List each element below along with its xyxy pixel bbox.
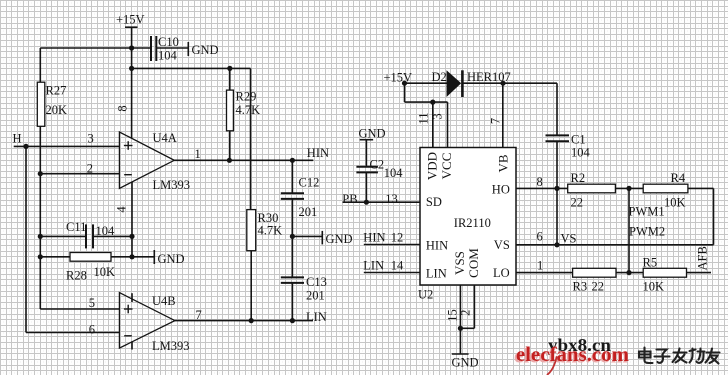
svg-text:PWM2: PWM2 (629, 225, 665, 239)
wire R28 row left stub (40, 256, 70, 258)
svg-text:13: 13 (385, 192, 398, 206)
svg-text:4.7K: 4.7K (236, 103, 261, 117)
wire U4B pin6 row (26, 332, 119, 334)
svg-text:VCC: VCC (439, 153, 454, 180)
resistor R3 (573, 268, 616, 277)
junction C11 right pin4 (129, 234, 134, 239)
svg-text:201: 201 (306, 289, 325, 303)
wire C2 top stub (365, 140, 367, 167)
ground tick at C10 (187, 42, 189, 56)
svg-text:IR2110: IR2110 (454, 216, 491, 230)
svg-text:R3: R3 (573, 279, 588, 293)
resistor R30 (247, 210, 256, 251)
junction C11 left (38, 234, 43, 239)
svg-text:3: 3 (88, 132, 94, 146)
svg-text:VS: VS (494, 238, 510, 252)
svg-text:AFB: AFB (696, 246, 710, 270)
op-amp U4B body (119, 293, 174, 349)
resistor R2 (568, 184, 616, 193)
svg-text:LIN: LIN (426, 267, 447, 281)
wire R2 to R4 (615, 187, 643, 189)
svg-text:2: 2 (459, 310, 473, 316)
wire C12 GND stub (292, 235, 322, 237)
junction C12 GND branch (290, 234, 295, 239)
diode D2 body (447, 70, 462, 97)
svg-text:10K: 10K (643, 279, 665, 293)
svg-text:R27: R27 (46, 84, 67, 98)
junction +15V D2 branch (402, 81, 407, 86)
wire R3 to R5 (616, 272, 643, 274)
svg-text:104: 104 (96, 224, 116, 238)
wire VSS pin15 column (459, 285, 461, 354)
svg-text:R4: R4 (671, 171, 686, 185)
svg-text:R2: R2 (571, 171, 586, 185)
wire U4B pin5 row (40, 308, 119, 310)
svg-text:+15V: +15V (116, 13, 145, 27)
wire C13 bottom stub (291, 283, 293, 321)
wire R30 bottom stub (250, 251, 252, 321)
op-amp U4A body (119, 132, 174, 188)
junction +15V/supply row (129, 66, 134, 71)
svg-text:10K: 10K (94, 265, 116, 279)
pin stub U4B bottom (pin 4) (131, 341, 133, 349)
power +15V bar (left rail) (125, 26, 138, 28)
diode D2 cathode bar (461, 70, 464, 97)
wire +15V branch down (404, 83, 406, 102)
ground bar above C2 (360, 139, 373, 141)
svg-text:1: 1 (537, 258, 543, 272)
logo hanzi shao (690, 349, 705, 363)
svg-text:PWM1: PWM1 (629, 205, 665, 219)
resistor R5 (643, 268, 686, 277)
junction R27/pin2 row (38, 171, 43, 176)
junction C2/SD row (364, 200, 369, 205)
svg-text:LO: LO (493, 266, 510, 280)
svg-text:R5: R5 (643, 256, 658, 270)
svg-text:HIN: HIN (307, 146, 329, 160)
wire D2 cathode row to C1 corner (463, 82, 557, 84)
wire node H row to U4A pin3 (14, 145, 120, 147)
wire C12 top stub (291, 160, 293, 193)
pin stub U4B top (pin 8) (131, 293, 133, 302)
capacitor C10 plates (151, 36, 156, 61)
wire C2 bottom stub (365, 172, 367, 202)
logo f tail flourish (548, 357, 557, 375)
svg-text:22: 22 (571, 196, 584, 210)
junction R2/R4 PWM1 (626, 186, 631, 191)
wire COM pin2 column (473, 285, 475, 328)
op-amp U4B minus input mark (124, 335, 132, 337)
svg-text:+15V: +15V (384, 71, 413, 85)
svg-text:22: 22 (592, 279, 605, 293)
wire LO row to R3 (516, 272, 573, 274)
svg-text:GND: GND (326, 232, 353, 246)
logo hanzi fa (673, 349, 687, 363)
capacitor C1 plates (546, 135, 570, 141)
junction +15V/C10 row (129, 45, 134, 50)
resistor R28 (70, 253, 111, 262)
svg-text:VSS: VSS (452, 251, 467, 275)
svg-text:GND: GND (452, 355, 479, 369)
svg-text:HIN: HIN (363, 230, 385, 244)
wire U4B output row to LIN (175, 320, 313, 322)
wire R29 top stub (229, 68, 231, 90)
wire C12 to C13 column (291, 199, 293, 278)
wire VDD/VCC feed row (405, 101, 448, 103)
wire supply row y68 (132, 67, 251, 69)
junction C13/LIN (290, 318, 295, 323)
svg-text:HIN: HIN (426, 239, 448, 253)
svg-text:6: 6 (89, 323, 95, 337)
svg-text:5: 5 (89, 296, 95, 310)
wire right corner down to VS row (713, 188, 715, 244)
wire HO row to R2 (516, 187, 568, 189)
junction R3/R5 PWM2 (626, 270, 631, 275)
svg-text:3: 3 (430, 113, 444, 119)
svg-text:104: 104 (384, 166, 404, 180)
wire C1 top stub (556, 83, 558, 135)
wire +15V to D2 anode (405, 82, 447, 84)
svg-text:14: 14 (391, 258, 404, 272)
wire H column down (25, 146, 27, 332)
resistor R29 (227, 90, 234, 131)
wire U4A output row to HIN (174, 159, 313, 161)
wire LIN row pin14 (364, 272, 420, 274)
wire R28 row right to GND (111, 256, 154, 258)
logo hanzi dian (639, 348, 653, 364)
wire R27 top stub (39, 48, 41, 82)
op-amp U4A plus input mark (124, 141, 133, 150)
wire COM to VSS joint (460, 327, 474, 329)
wire PWM column R2/R3 junctions (628, 188, 630, 272)
svg-text:7: 7 (196, 308, 202, 322)
wire C10 to GND tick (156, 47, 188, 49)
capacitor C13 plates (281, 277, 304, 283)
wire R27 bottom column (39, 126, 41, 309)
svg-text:LM393: LM393 (153, 178, 191, 192)
logo hanzi zi (655, 350, 670, 363)
svg-text:U4A: U4A (153, 131, 177, 145)
svg-text:C12: C12 (299, 175, 320, 189)
svg-text:GND: GND (158, 252, 185, 266)
svg-text:COM: COM (466, 248, 481, 278)
svg-text:D2: D2 (432, 70, 447, 84)
svg-text:LM393: LM393 (152, 339, 190, 353)
svg-text:HO: HO (492, 182, 510, 196)
wire pin3 column (447, 102, 449, 147)
wire U4A pin2 row (40, 173, 119, 175)
svg-text:C13: C13 (306, 275, 327, 289)
svg-text:R29: R29 (236, 90, 257, 104)
svg-text:U2: U2 (418, 288, 433, 302)
svg-text:PB: PB (342, 192, 357, 206)
svg-text:7: 7 (489, 118, 503, 124)
svg-text:GND: GND (359, 127, 386, 141)
wire VS row (516, 244, 714, 246)
wire R30 top column (250, 68, 252, 209)
svg-text:LIN: LIN (306, 310, 327, 324)
op-amp U4B plus input mark (124, 305, 133, 314)
svg-text:15: 15 (445, 309, 459, 322)
svg-text:VB: VB (495, 154, 510, 172)
junction C1/VS row (554, 242, 559, 247)
svg-text:8: 8 (115, 105, 129, 111)
svg-text:2: 2 (87, 162, 93, 176)
junction D2 cathode pin7 (500, 81, 505, 86)
junction C1/HO row (554, 186, 559, 191)
svg-text:C10: C10 (158, 35, 179, 49)
wire U4A pin4 column (131, 182, 133, 257)
wire pin7 column (502, 83, 504, 147)
svg-text:201: 201 (299, 205, 318, 219)
junction R28 right pin4 (129, 254, 134, 259)
logo hanzi you (706, 349, 720, 364)
svg-text:SD: SD (426, 195, 442, 209)
IC U2 IR2110 body (420, 148, 516, 286)
svg-text:10K: 10K (664, 196, 686, 210)
ground tick at C12 (321, 231, 323, 245)
junction R28 left (38, 254, 43, 259)
wire +15V column into U4A pin 8 (131, 27, 133, 138)
svg-text:elecfans.com: elecfans.com (516, 342, 629, 366)
svg-text:VDD: VDD (424, 152, 439, 180)
wire pin11 column (432, 102, 434, 147)
svg-text:20K: 20K (46, 103, 68, 117)
ground bar below U2 (452, 353, 469, 355)
junction C12/HIN (290, 158, 295, 163)
wire C1 bottom column to VS (556, 141, 558, 245)
wire R5 to AFB stub (687, 272, 712, 274)
svg-text:1: 1 (195, 147, 201, 161)
svg-text:VS: VS (561, 231, 577, 245)
wire C10 row (40, 47, 151, 49)
resistor R27 (37, 82, 45, 126)
wire C11 row left (40, 235, 86, 237)
svg-text:C2: C2 (370, 158, 385, 172)
svg-text:LIN: LIN (363, 258, 384, 272)
svg-text:104: 104 (158, 49, 178, 63)
svg-text:U4B: U4B (152, 294, 176, 308)
wire R4 to right corner (688, 187, 714, 189)
junction R29/U4A output (227, 158, 232, 163)
junction pin11 feed (430, 100, 435, 105)
op-amp U4A minus input mark (124, 174, 132, 176)
svg-text:HER107: HER107 (467, 70, 511, 84)
svg-text:4.7K: 4.7K (258, 224, 283, 238)
junction node H (23, 144, 28, 149)
junction R29 top (227, 66, 232, 71)
svg-text:8: 8 (537, 175, 543, 189)
svg-text:C11: C11 (66, 220, 86, 234)
capacitor C2 plates (356, 167, 378, 173)
svg-text:R28: R28 (66, 268, 87, 282)
svg-text:104: 104 (571, 145, 591, 159)
wire C11 row right (93, 235, 132, 237)
resistor R4 (643, 184, 688, 193)
junction VSS/COM (458, 326, 463, 331)
svg-text:11: 11 (417, 112, 431, 124)
wire PB/SD row pin13 (343, 201, 420, 203)
svg-text:GND: GND (192, 43, 219, 57)
capacitor C12 plates (281, 193, 304, 199)
wire R29 bottom stub (229, 131, 231, 161)
svg-text:12: 12 (391, 230, 404, 244)
svg-text:H: H (13, 132, 22, 146)
wire HIN row pin12 (364, 244, 420, 246)
svg-text:4: 4 (114, 206, 128, 213)
svg-text:6: 6 (537, 229, 543, 243)
capacitor C11 plates (86, 224, 93, 248)
junction R30/U4B output (249, 318, 254, 323)
ground tick at R28 (153, 250, 155, 264)
